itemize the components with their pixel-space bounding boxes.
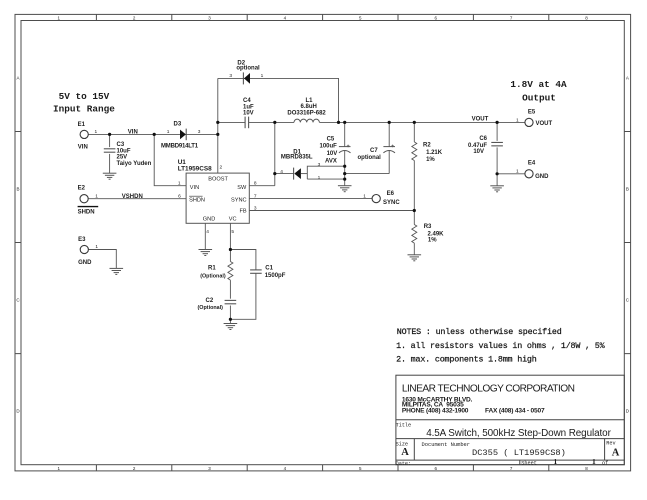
svg-text:(Optional): (Optional) <box>200 274 226 280</box>
svg-text:E2: E2 <box>78 186 86 192</box>
svg-text:C4: C4 <box>243 98 251 104</box>
svg-text:GND: GND <box>203 217 215 223</box>
svg-text:3: 3 <box>198 129 201 135</box>
svg-text:C3: C3 <box>117 142 125 148</box>
svg-text:C5: C5 <box>327 136 335 142</box>
svg-text:C: C <box>626 298 630 303</box>
svg-text:PHONE (408) 432-1900: PHONE (408) 432-1900 <box>402 408 469 415</box>
svg-text:C: C <box>16 298 20 303</box>
svg-text:L1: L1 <box>306 98 314 104</box>
svg-text:VSHDN: VSHDN <box>122 194 143 200</box>
svg-text:GND: GND <box>535 174 549 180</box>
svg-text:4: 4 <box>206 229 209 235</box>
svg-text:7: 7 <box>510 466 513 471</box>
svg-text:C7: C7 <box>370 148 378 154</box>
svg-text:1: 1 <box>554 457 558 466</box>
svg-text:7: 7 <box>510 15 513 20</box>
svg-text:1: 1 <box>516 117 519 123</box>
svg-text:1: 1 <box>95 129 98 135</box>
svg-text:1: 1 <box>95 193 98 199</box>
svg-text:6: 6 <box>434 15 437 20</box>
svg-text:R3: R3 <box>424 224 432 230</box>
svg-text:2. max. components 1.8mm high: 2. max. components 1.8mm high <box>396 355 537 365</box>
svg-text:1: 1 <box>178 180 181 186</box>
svg-text:1: 1 <box>516 169 519 175</box>
svg-text:Rev: Rev <box>606 441 615 447</box>
svg-text:DC355 ( LT1959CS8): DC355 ( LT1959CS8) <box>472 448 566 458</box>
svg-text:(Optional): (Optional) <box>198 305 224 311</box>
svg-text:5: 5 <box>359 466 362 471</box>
svg-text:FB: FB <box>239 209 246 215</box>
svg-text:1: 1 <box>363 193 366 199</box>
svg-text:25V: 25V <box>117 155 128 161</box>
svg-text:6: 6 <box>178 193 181 199</box>
svg-text:A: A <box>612 448 620 459</box>
svg-text:SYNC: SYNC <box>231 197 247 203</box>
svg-text:Document Number: Document Number <box>422 442 471 448</box>
svg-text:DO3316P-682: DO3316P-682 <box>287 110 326 116</box>
svg-text:MBRD835L: MBRD835L <box>281 155 313 161</box>
svg-text:D: D <box>626 409 630 414</box>
svg-text:3: 3 <box>229 73 232 79</box>
svg-text:B: B <box>626 187 629 192</box>
svg-text:SHDN: SHDN <box>78 209 95 215</box>
svg-text:B: B <box>16 187 19 192</box>
svg-text:VOUT: VOUT <box>472 116 489 122</box>
svg-text:optional: optional <box>358 155 382 161</box>
svg-text:5: 5 <box>359 15 362 20</box>
svg-text:6: 6 <box>434 466 437 471</box>
svg-text:GND: GND <box>78 260 92 266</box>
svg-text:C2: C2 <box>206 298 214 304</box>
svg-text:NOTES : unless otherwise speci: NOTES : unless otherwise specified <box>397 327 562 337</box>
svg-text:LINEAR TECHNOLOGY CORPORATION: LINEAR TECHNOLOGY CORPORATION <box>402 384 575 395</box>
svg-text:Input Range: Input Range <box>53 104 115 115</box>
svg-text:1: 1 <box>57 466 60 471</box>
svg-text:4: 4 <box>280 169 283 175</box>
svg-text:VIN: VIN <box>128 129 138 135</box>
svg-text:MMBD914LT1: MMBD914LT1 <box>161 144 199 150</box>
svg-text:A: A <box>626 76 629 81</box>
svg-text:E3: E3 <box>78 237 86 243</box>
svg-text:100uF: 100uF <box>320 144 338 150</box>
svg-text:1%: 1% <box>426 157 435 163</box>
svg-text:10uF: 10uF <box>117 148 131 154</box>
svg-text:1: 1 <box>261 73 264 79</box>
svg-text:E4: E4 <box>528 161 536 167</box>
svg-text:Output: Output <box>522 92 556 103</box>
svg-text:8: 8 <box>585 15 588 20</box>
svg-text:SW: SW <box>237 185 247 191</box>
svg-text:3: 3 <box>208 466 211 471</box>
svg-text:5: 5 <box>231 229 234 235</box>
svg-text:E6: E6 <box>387 191 395 197</box>
svg-text:1: 1 <box>95 244 98 250</box>
svg-text:VOUT: VOUT <box>536 121 553 127</box>
svg-text:E5: E5 <box>528 110 536 116</box>
svg-text:1.21K: 1.21K <box>426 150 443 156</box>
svg-text:1: 1 <box>318 175 321 181</box>
svg-text:3: 3 <box>254 205 257 211</box>
svg-text:SHDN: SHDN <box>189 197 205 203</box>
svg-text:C1: C1 <box>265 265 273 271</box>
svg-text:Title: Title <box>396 423 412 429</box>
svg-text:1: 1 <box>57 15 60 20</box>
svg-text:10V: 10V <box>473 149 484 155</box>
svg-text:VIN: VIN <box>190 185 199 191</box>
svg-text:3: 3 <box>318 162 321 168</box>
svg-text:8: 8 <box>585 466 588 471</box>
svg-text:optional: optional <box>236 65 260 71</box>
svg-text:2.49K: 2.49K <box>428 231 445 237</box>
svg-text:VC: VC <box>229 217 237 223</box>
svg-text:1. all resistors values in ohm: 1. all resistors values in ohms , 1/8W ,… <box>396 341 606 351</box>
svg-text:LT1959CS8: LT1959CS8 <box>178 165 212 172</box>
svg-text:0.47uF: 0.47uF <box>468 143 487 149</box>
svg-text:AVX: AVX <box>325 158 337 164</box>
svg-text:C6: C6 <box>479 136 487 142</box>
svg-text:FAX (408) 434 - 0507: FAX (408) 434 - 0507 <box>485 408 545 415</box>
svg-text:8: 8 <box>254 180 257 186</box>
svg-text:10V: 10V <box>327 151 338 157</box>
svg-text:of: of <box>602 461 608 467</box>
svg-text:10V: 10V <box>243 111 254 117</box>
svg-text:A: A <box>16 76 19 81</box>
svg-text:4: 4 <box>284 15 287 20</box>
svg-text:2: 2 <box>220 165 223 171</box>
svg-text:D: D <box>16 409 20 414</box>
svg-text:1uF: 1uF <box>243 105 254 111</box>
svg-text:R2: R2 <box>423 143 431 149</box>
svg-text:1: 1 <box>592 457 596 466</box>
svg-text:E1: E1 <box>78 122 86 128</box>
svg-text:1500pF: 1500pF <box>265 273 286 279</box>
svg-text:3: 3 <box>208 15 211 20</box>
svg-text:VIN: VIN <box>78 144 88 150</box>
svg-text:2: 2 <box>133 15 136 20</box>
svg-text:1.8V at 4A: 1.8V at 4A <box>510 79 567 90</box>
svg-text:D3: D3 <box>174 122 182 128</box>
svg-text:BOOST: BOOST <box>208 177 228 183</box>
svg-text:1%: 1% <box>428 238 437 244</box>
svg-text:R1: R1 <box>208 265 216 271</box>
svg-text:4: 4 <box>284 466 287 471</box>
svg-text:1: 1 <box>167 129 170 135</box>
svg-text:7: 7 <box>254 193 257 199</box>
svg-text:Sheet: Sheet <box>521 461 537 467</box>
svg-text:Taiyo Yuden: Taiyo Yuden <box>117 161 152 167</box>
svg-text:Date:: Date: <box>396 461 412 467</box>
svg-text:5V to 15V: 5V to 15V <box>59 91 110 102</box>
svg-text:2: 2 <box>133 466 136 471</box>
svg-text:4.5A Switch, 500kHz Step-Down: 4.5A Switch, 500kHz Step-Down Regulator <box>426 428 611 439</box>
svg-text:A: A <box>401 447 409 458</box>
svg-text:6.8uH: 6.8uH <box>301 104 317 110</box>
svg-text:SYNC: SYNC <box>383 200 400 206</box>
